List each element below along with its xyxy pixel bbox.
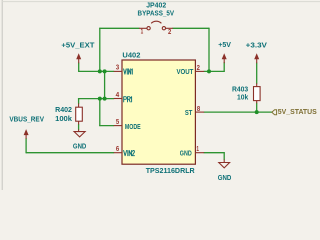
svg-text:+5V_EXT: +5V_EXT — [61, 40, 95, 49]
svg-text:GND: GND — [218, 173, 232, 182]
svg-text:2: 2 — [168, 29, 171, 36]
svg-text:100k: 100k — [55, 114, 72, 123]
svg-text:1: 1 — [141, 29, 144, 36]
svg-text:5: 5 — [116, 119, 119, 126]
svg-text:GND: GND — [180, 149, 192, 158]
svg-text:VOUT: VOUT — [177, 67, 194, 76]
svg-text:2: 2 — [197, 65, 200, 72]
svg-text:4: 4 — [116, 92, 120, 99]
svg-text:8: 8 — [197, 106, 200, 113]
svg-text:3: 3 — [116, 65, 119, 72]
svg-text:6: 6 — [116, 146, 119, 153]
svg-text:ST: ST — [185, 108, 193, 117]
svg-text:BYPASS_5V: BYPASS_5V — [138, 9, 175, 18]
svg-text:TPS2116DRLR: TPS2116DRLR — [146, 166, 196, 175]
svg-text:U402: U402 — [122, 51, 140, 60]
svg-text:1: 1 — [196, 146, 199, 153]
svg-text:5V_STATUS: 5V_STATUS — [278, 107, 317, 116]
svg-text:MODE: MODE — [125, 122, 141, 131]
svg-text:GND: GND — [73, 141, 86, 150]
svg-text:10k: 10k — [237, 93, 248, 102]
svg-text:R402: R402 — [55, 105, 72, 114]
svg-text:+5V: +5V — [218, 40, 231, 49]
svg-text:VBUS_REV: VBUS_REV — [9, 115, 44, 124]
svg-text:+3.3V: +3.3V — [246, 40, 268, 49]
